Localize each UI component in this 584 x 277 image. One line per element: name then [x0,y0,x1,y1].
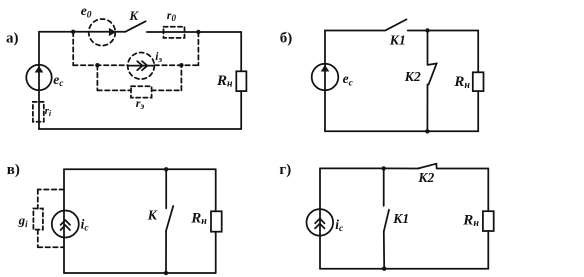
load resistor Rn (b) [473,72,484,91]
svg-text:г): г) [279,162,291,178]
dashed wire: middle line right [155,64,199,66]
wire: b left side [324,31,326,132]
dashed wire: drop from node a-top-left [72,32,74,65]
emf source e0 dashed circle [89,19,116,46]
wire: b right side lower [477,91,479,131]
wire: a bottom side [39,128,241,130]
wire: b top-left segment [325,30,385,32]
conductance gi dashed box [33,209,43,230]
wire: g right side upper [487,169,489,212]
node v-top [164,167,168,171]
dashed wire: gi loop top [38,189,64,191]
switch K blade [125,21,145,32]
node v-bottom [164,271,168,275]
svg-text:К1: К1 [392,211,409,226]
arrow chevrons of ic (v) [61,220,70,230]
wire: v right side upper [215,169,217,211]
node a-top-left [71,30,75,34]
dashed wire: drop from node a-top-right [197,32,199,65]
wire: v middle branch upper [165,169,167,208]
node a-top-right [196,30,200,34]
source ec circle (b) [312,64,339,91]
svg-text:K: K [128,8,139,23]
wire: g bottom side [320,268,488,270]
wire: a top-left segment through e0 [39,31,125,33]
wire: g middle branch upper [383,168,385,206]
node b-top [425,28,429,32]
dashed wire: r_e loop right rise [180,65,182,90]
wire: g right side lower [487,231,489,269]
resistor r_e dashed box [131,86,152,97]
dashed wire: r_e loop left drop [96,65,98,90]
switch K blade (v) [166,206,173,231]
dashed wire: gi loop left upper [37,190,39,209]
arrow of ec (b) [321,65,330,72]
dashed wire: r_e loop bottom [97,89,181,91]
node b-bottom [425,129,429,133]
node g-bottom [382,267,386,271]
wire: v right side lower [215,232,217,273]
dashed wire: middle line left [73,64,128,66]
wire: g top segment to K2 [384,167,418,169]
switch K1 blade (b) [386,19,407,30]
svg-text:К1: К1 [389,33,406,48]
svg-text:б): б) [280,31,293,47]
equivalent current source i_e dashed circle [128,53,155,80]
arrow chevrons of ic (g) [315,219,324,229]
source ec circle (a) [26,65,51,90]
wire: b top-right segment [408,30,479,32]
svg-text:К2: К2 [417,170,434,185]
svg-text:К: К [147,207,158,222]
arrow of ec (a) [35,66,44,73]
wire through i_e circle [128,65,154,67]
wire: b bottom side [325,130,478,132]
svg-text:а): а) [6,30,19,46]
node g-top [382,166,386,170]
wire: v middle branch lower [165,232,167,273]
wire: g left side [319,168,321,268]
svg-text:К2: К2 [404,69,421,84]
svg-text:в): в) [7,162,20,178]
wire: v top side [64,168,216,170]
load resistor Rn (v) [211,211,222,231]
wire: g top-right segment [437,168,489,170]
node a-mid-right [179,63,183,67]
wire: a right side upper [240,32,242,71]
arrow chevrons of i_e [137,61,147,70]
node a-mid-left [95,63,99,67]
resistor r0 dashed box [164,27,185,38]
wire: g middle branch lower [383,232,385,269]
wire: v bottom side [64,272,216,274]
load resistor Rn (g) [483,211,494,231]
dashed wire: gi loop left lower [37,230,39,248]
internal resistance ri dashed box [33,102,44,122]
dashed wire: gi loop bottom [38,246,64,248]
source ic circle (g) [307,209,334,236]
source ic circle (v) [52,211,79,238]
wire: g top-left segment [320,167,384,169]
wire: a top-right segment through r0 [147,31,241,33]
wire: v left side [63,169,65,273]
load resistor Rn (a) [236,71,246,91]
switch K1 blade (g) [384,210,389,231]
wire: b right side upper [477,31,479,73]
arrow of e0 [109,28,116,36]
wire: a right side lower [240,91,242,129]
wire: b middle branch upper [427,31,429,65]
switch K2 blade (b) [428,64,437,85]
wire: b middle branch lower [426,84,428,131]
switch K2 blade (g) [418,164,437,169]
wire: a left side [38,32,40,129]
